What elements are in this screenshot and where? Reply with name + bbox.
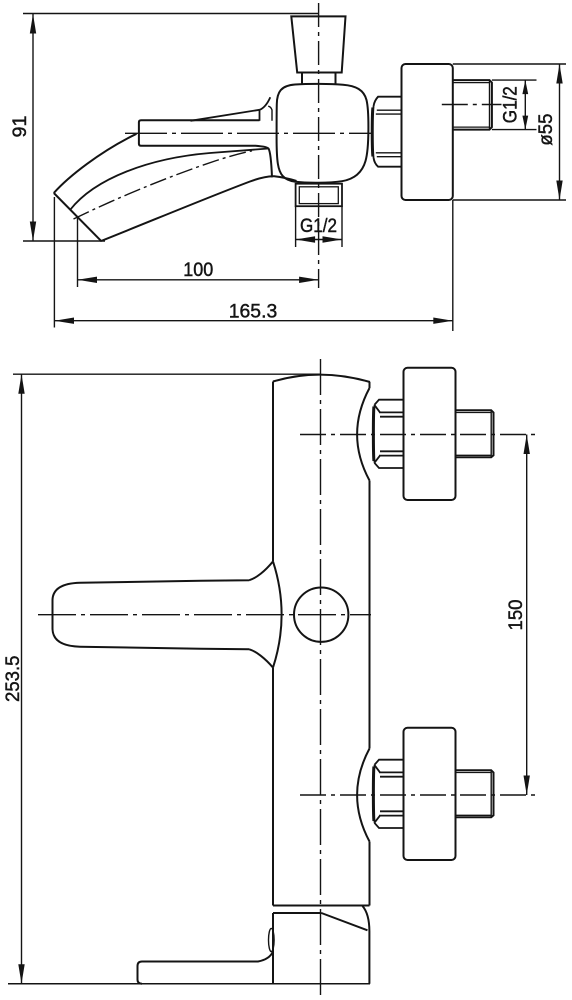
wall flange (side view)	[402, 64, 453, 200]
svg-text:G1/2: G1/2	[500, 86, 522, 123]
bottom escutcheon	[404, 728, 456, 860]
dim dia55 extension lines	[453, 64, 566, 200]
handle horizontal centerline	[38, 614, 371, 616]
dim 91 extension line top	[23, 13, 319, 15]
top connector centerline	[300, 434, 536, 436]
handle collar top right edge	[268, 106, 272, 121]
top nipple chamfer vertical	[490, 410, 492, 457]
spout dash-dot centerline	[74, 151, 253, 219]
body bottom joint line	[273, 905, 370, 907]
spout housing (front view)	[273, 906, 369, 984]
main horizontal centerline (side view)	[125, 132, 371, 134]
dim 165.3 extension line left	[53, 197, 55, 328]
vertical centerline (side view)	[318, 3, 320, 288]
body left edge upper	[272, 382, 274, 562]
handle collar top flare diagonal	[191, 110, 260, 121]
body right edge top	[369, 382, 371, 388]
wall nut chamfer lines	[376, 110, 402, 157]
handle collar top curve to body	[260, 97, 271, 110]
spout tip (front view)	[138, 952, 274, 984]
spout inner curve	[101, 176, 297, 241]
dim 165.3 dimension line	[55, 320, 453, 322]
dim 100 dimension line	[78, 279, 319, 281]
body right edge bottom	[369, 842, 371, 906]
dim G1/2 right dimension line	[524, 80, 526, 130]
spout cut face	[54, 193, 102, 241]
svg-text:ø55: ø55	[535, 113, 557, 145]
dim 150 dimension line	[526, 435, 528, 796]
svg-text:253.5: 253.5	[2, 655, 24, 702]
wall nipple G1/2 (side view)	[453, 80, 492, 130]
top nipple outline	[456, 410, 493, 457]
bottom nipple outline	[456, 770, 493, 817]
outlet connector inner	[299, 187, 338, 204]
body right boss arc bottom	[357, 749, 369, 842]
body right boss arc top	[357, 388, 369, 481]
bottom nipple thread lines	[456, 773, 491, 816]
handle lever (front view)	[53, 561, 274, 667]
body top cap arc	[273, 375, 370, 382]
body (side view)	[277, 84, 369, 183]
wall nipple thread lines	[453, 83, 490, 128]
bottom nipple chamfer vertical	[490, 770, 492, 817]
dim dia55 dimension line	[559, 64, 561, 200]
G1/2 outlet dimension arrows	[296, 239, 342, 241]
handle lever (side view)	[139, 120, 272, 177]
spout outer curve	[54, 134, 137, 193]
bottom nut (front view)	[374, 760, 403, 828]
dim 253.5 dimension line	[21, 374, 23, 984]
dim 253.5 extension line top	[13, 373, 320, 375]
top nut (front view)	[374, 400, 403, 468]
spout near corner curve	[70, 149, 269, 211]
dim 91 arrow up	[30, 14, 36, 34]
bottom nut left seat arc	[373, 765, 375, 823]
bottom connector centerline	[300, 794, 536, 796]
dim G1/2 right extension lines	[492, 80, 537, 130]
dim 165.3 extension line right	[452, 200, 454, 331]
outlet connector outer	[296, 184, 342, 207]
top nut left seat arc	[373, 405, 375, 463]
knob neck	[302, 73, 336, 84]
wall nut (side view)	[374, 97, 402, 167]
dim 91 extension line bottom	[23, 240, 105, 242]
body left edge lower	[272, 668, 274, 906]
dim 91 arrow down	[30, 222, 36, 242]
dim 91 dimension line	[32, 14, 34, 241]
body left bulge arc	[273, 561, 282, 667]
top escutcheon	[404, 368, 456, 500]
svg-text:100: 100	[183, 259, 213, 281]
G1/2 outlet extension lines	[296, 206, 342, 247]
wall nipple centerline	[442, 104, 502, 106]
dim 100 extension line left	[77, 217, 79, 288]
svg-text:91: 91	[9, 116, 31, 138]
body right edge middle	[369, 481, 371, 749]
svg-text:165.3: 165.3	[229, 301, 278, 323]
wall nut left seat arcs	[372, 106, 374, 158]
baseline / bottom extension line	[8, 983, 370, 985]
wall nipple chamfer vertical	[489, 80, 491, 130]
top nipple thread lines	[456, 413, 491, 456]
svg-text:150: 150	[505, 599, 527, 630]
cartridge circle	[294, 588, 348, 642]
spout nose ellipse	[269, 928, 275, 951]
handle collar top left edge	[259, 110, 261, 121]
vertical centerline (front view)	[320, 359, 322, 996]
diverter knob	[291, 16, 345, 72]
